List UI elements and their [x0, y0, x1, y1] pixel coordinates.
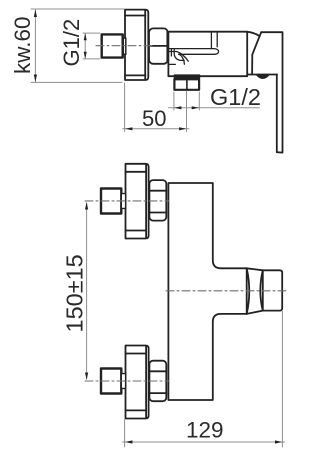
bottom wall flange (front view)	[126, 346, 149, 419]
bottom eccentric fitting (front view)	[101, 369, 126, 394]
fitting dim line	[84, 34, 86, 58]
svg-text:G1/2: G1/2	[59, 19, 84, 67]
eccentric fitting (side view)	[102, 34, 126, 57]
top wall flange (front view)	[126, 164, 149, 239]
fitting dim ext lines	[83, 32, 100, 34]
mixer body front view with handle boss	[168, 183, 246, 400]
centerline (side view)	[96, 45, 152, 47]
kw.60 dimension line	[34, 10, 36, 82]
129 dim line	[123, 441, 285, 443]
svg-text:129: 129	[186, 418, 224, 443]
bottom hex nut (front view)	[149, 361, 166, 402]
cartridge cap arc	[247, 32, 260, 36]
dim texts: front view	[62, 254, 224, 442]
top eccentric fitting (front view)	[101, 189, 126, 214]
lever pivot bump	[257, 75, 270, 79]
top hex nut (front view)	[149, 180, 166, 221]
arrows (side view dims)	[34, 10, 199, 131]
wall flange (side view)	[125, 10, 148, 80]
body interior waterway lines	[168, 32, 218, 65]
outlet nut G1/2	[174, 79, 199, 90]
50 dim line	[123, 128, 189, 130]
svg-text:50: 50	[142, 106, 166, 131]
dim texts: side view	[10, 16, 261, 131]
mixer body side view	[168, 32, 277, 76]
hex nut (side view)	[149, 28, 168, 63]
centerlines (front view)	[85, 201, 286, 381]
handle cap (front view)	[263, 270, 282, 310]
kw.60 extension lines	[31, 8, 124, 10]
svg-text:150±15: 150±15	[62, 254, 88, 332]
50 dim ext line	[124, 83, 126, 132]
svg-text:kw.60: kw.60	[10, 16, 35, 74]
G1/2 bottom ext lines	[173, 92, 175, 110]
cone transition	[247, 268, 263, 314]
arrows (front view dims)	[85, 202, 282, 444]
outlet threaded band	[174, 75, 200, 79]
150±15 dim line	[86, 203, 88, 379]
G1/2 dim/underline	[169, 107, 260, 109]
svg-text:G1/2: G1/2	[210, 84, 261, 110]
129 ext lines	[124, 420, 126, 448]
lever handle (side view)	[252, 32, 282, 152]
